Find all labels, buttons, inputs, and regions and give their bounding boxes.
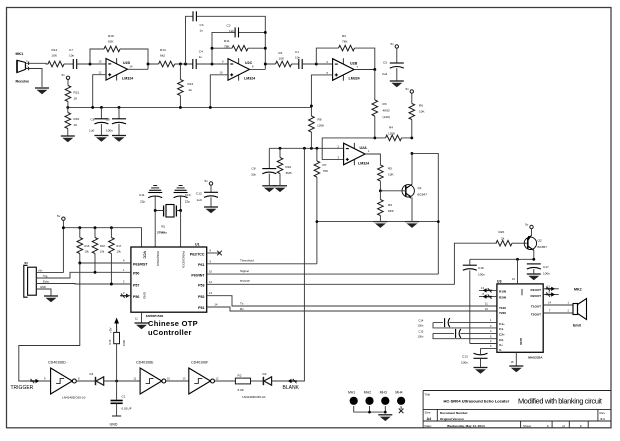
- node R2 left: [315, 63, 318, 66]
- wire U2B plus to rail end: [311, 75, 332, 106]
- bus entry TRIGGER: [30, 379, 39, 383]
- wire P62/TCC no-connect: [207, 252, 220, 254]
- ground (R10): [273, 186, 287, 192]
- svg-text:U3: U3: [497, 279, 502, 283]
- svg-text:100n: 100n: [106, 129, 113, 133]
- svg-text:VCC: VCC: [520, 289, 524, 296]
- svg-text:R20: R20: [499, 230, 505, 234]
- node U2C minus: [211, 63, 214, 66]
- svg-text:5v: 5v: [406, 87, 410, 91]
- svg-text:Tx: Tx: [240, 302, 244, 306]
- node C6 top: [100, 106, 103, 109]
- svg-text:1: 1: [547, 424, 549, 428]
- node rail R12: [179, 106, 182, 109]
- inverter CD40106F: [189, 368, 215, 394]
- node OSCI/crystal: [154, 209, 157, 212]
- capacitor C2 loop: [212, 32, 265, 64]
- svg-text:T2OUT: T2OUT: [531, 312, 541, 316]
- resistor R21 1K: [67, 80, 69, 86]
- svg-text:HC-SR04 Ultrasound Echo Locate: HC-SR04 Ultrasound Echo Locater: [444, 399, 510, 404]
- node R5/R9/base: [379, 189, 382, 192]
- capacitor C1: [299, 59, 302, 69]
- svg-text:Original Version: Original Version: [440, 417, 464, 421]
- node P57/R17: [110, 283, 113, 286]
- wire R1 to C1: [292, 63, 299, 65]
- op-amp U2D: [106, 58, 128, 80]
- wire D out to D1: [76, 380, 95, 382]
- wire U2D plus input to rail: [93, 75, 106, 108]
- node rail end U2B: [310, 104, 313, 107]
- wire R1IN stub: [479, 289, 497, 291]
- ground (mic): [35, 88, 49, 94]
- svg-text:CD40106D: CD40106D: [48, 361, 66, 365]
- svg-text:MAX232A: MAX232A: [528, 356, 543, 360]
- svg-text:R8: R8: [318, 118, 322, 122]
- svg-text:8K9: 8K9: [388, 209, 394, 213]
- wire R2IN stub: [479, 296, 497, 298]
- 5v supply (R21): [66, 76, 69, 79]
- svg-text:C2+: C2+: [499, 333, 505, 337]
- svg-text:+5V: +5V: [109, 326, 113, 333]
- svg-text:10K: 10K: [419, 110, 425, 114]
- svg-text:R15: R15: [108, 339, 112, 344]
- svg-text:10k: 10k: [100, 250, 105, 254]
- wire MH ground bus: [354, 406, 386, 412]
- svg-text:100n: 100n: [478, 273, 485, 277]
- ground (R9): [373, 222, 387, 228]
- wire U2B output: [354, 69, 375, 71]
- resistor R17 10k: [110, 228, 112, 238]
- svg-text:HV/OP: HV/OP: [240, 279, 250, 283]
- svg-text:C2: C2: [227, 24, 231, 28]
- node U2D out: [147, 63, 150, 66]
- node R7 top: [315, 147, 318, 150]
- ground (connector): [44, 296, 58, 302]
- svg-text:R3: R3: [383, 102, 387, 106]
- svg-text:D1: D1: [90, 372, 94, 376]
- svg-text:P63/RST: P63/RST: [133, 262, 148, 266]
- svg-text:R2IN: R2IN: [499, 296, 507, 300]
- node R11 left on vertical: [211, 47, 214, 50]
- wire feedback right leg: [120, 49, 148, 69]
- svg-text:R14: R14: [52, 48, 58, 52]
- svg-text:120K: 120K: [317, 124, 325, 128]
- MH4 no-connect: [400, 406, 402, 409]
- svg-text:R10: R10: [286, 165, 292, 169]
- node U2B out: [373, 68, 376, 71]
- node R10 top: [279, 147, 282, 150]
- svg-text:5v: 5v: [391, 42, 395, 46]
- svg-text:C3: C3: [200, 23, 204, 27]
- svg-text:6.6K: 6.6K: [238, 388, 245, 392]
- ground (R16): [61, 136, 75, 142]
- svg-text:2u2: 2u2: [382, 72, 387, 76]
- svg-text:1u0: 1u0: [197, 198, 202, 202]
- resistor R7 75K: [316, 148, 318, 263]
- wire P50 row: [36, 272, 131, 278]
- svg-text:10n: 10n: [69, 54, 74, 58]
- microcontroller U1 body: [131, 247, 207, 312]
- wire P56 stub with arrow: [121, 294, 130, 298]
- svg-text:C6: C6: [91, 118, 95, 122]
- svg-text:R18: R18: [100, 244, 105, 248]
- wire F out to R2b: [215, 380, 236, 382]
- svg-text:P61: P61: [198, 263, 204, 267]
- svg-text:4K92: 4K92: [383, 109, 391, 113]
- resistor R4: [375, 137, 412, 139]
- svg-text:100n: 100n: [543, 272, 550, 276]
- capacitor C7: [73, 59, 76, 69]
- svg-text:C10: C10: [185, 193, 191, 197]
- svg-text:1: 1: [580, 424, 582, 428]
- op-amp U2B: [333, 58, 355, 80]
- svg-text:C15: C15: [419, 329, 424, 333]
- svg-text:V+: V+: [499, 343, 503, 347]
- capacitor C16 100n: [469, 259, 471, 265]
- node rail R17: [110, 226, 113, 229]
- node blank line top: [303, 147, 306, 150]
- wire U2D output: [128, 64, 159, 69]
- ground above C10: [175, 186, 187, 191]
- svg-text:LM324: LM324: [358, 161, 369, 165]
- svg-text:C17: C17: [543, 265, 549, 269]
- wire Rx P51: [207, 307, 497, 311]
- svg-text:C4: C4: [199, 50, 203, 54]
- svg-text:U2C: U2C: [245, 61, 253, 65]
- svg-text:Wednesday, May 14, 2014: Wednesday, May 14, 2014: [447, 424, 485, 428]
- capacitor C9 100n: [118, 107, 120, 118]
- MAX232 U3 body: [497, 284, 543, 352]
- GND power symbol: [112, 415, 121, 417]
- node rail 5v: [62, 226, 65, 229]
- resistor R5 10K: [378, 165, 384, 181]
- svg-text:EM78P153S: EM78P153S: [146, 314, 163, 318]
- node R3/R4: [373, 136, 376, 139]
- op-amp U2A: [344, 143, 366, 165]
- svg-text:MH1: MH1: [348, 391, 355, 395]
- wire feedback left leg: [90, 49, 104, 64]
- svg-text:BC857: BC857: [538, 245, 548, 249]
- svg-text:P52: P52: [198, 295, 204, 299]
- svg-text:R21: R21: [74, 91, 80, 95]
- resistor R2 76K feedback: [316, 48, 375, 69]
- svg-text:Y1: Y1: [161, 225, 165, 229]
- resistor R19 10k: [79, 228, 81, 238]
- svg-text:Title: Title: [425, 393, 431, 397]
- ground (C5): [390, 81, 404, 87]
- node R12 top: [179, 63, 182, 66]
- svg-text:P53: P53: [198, 284, 204, 288]
- svg-text:VCC: VCC: [143, 251, 147, 259]
- svg-text:5v: 5v: [205, 179, 209, 183]
- svg-text:10K: 10K: [52, 54, 58, 58]
- svg-text:27MHz: 27MHz: [157, 231, 167, 235]
- node rail R18b: [94, 226, 97, 229]
- svg-text:22p: 22p: [185, 200, 190, 204]
- svg-text:3M3: 3M3: [286, 171, 292, 175]
- svg-text:Rx: Rx: [240, 307, 244, 311]
- U3 pin 16 VCC: [517, 259, 519, 284]
- transistor Q2 BC857: [524, 235, 536, 250]
- capacitor C11 22p: [148, 193, 162, 198]
- wire C7 to U2D: [77, 63, 106, 65]
- mounting hole MH3: [381, 397, 389, 405]
- node rail R19: [78, 226, 81, 229]
- wire R2b to D2: [251, 380, 264, 382]
- svg-text:C16: C16: [478, 266, 484, 270]
- svg-text:BLANK: BLANK: [283, 385, 300, 391]
- svg-text:R1IN: R1IN: [499, 289, 507, 293]
- connector IN: [24, 265, 37, 297]
- mounting hole MH4: [397, 397, 405, 405]
- resistor R8 120K: [310, 106, 312, 148]
- svg-text:C1: C1: [122, 395, 126, 399]
- inverter CD40106D: [51, 368, 77, 394]
- svg-text:1N4148DO35-10: 1N4148DO35-10: [62, 396, 86, 400]
- capacitor C8 33n: [268, 148, 270, 168]
- svg-text:120K: 120K: [388, 132, 396, 136]
- resistor R2b (box): [235, 378, 250, 384]
- svg-text:C1+: C1+: [499, 322, 505, 326]
- wire R1OUT stub: [543, 288, 559, 290]
- crystal Y1 27MHz: [164, 205, 177, 218]
- capacitor C12 1u0: [210, 185, 212, 192]
- svg-text:R1OUT: R1OUT: [531, 288, 542, 292]
- svg-text:Chinese OTP: Chinese OTP: [148, 319, 198, 328]
- svg-text:+5v: +5v: [38, 269, 43, 273]
- svg-text:P62/TCC: P62/TCC: [190, 252, 205, 256]
- svg-text:Document Number: Document Number: [440, 411, 468, 415]
- svg-text:10K: 10K: [279, 57, 285, 61]
- svg-text:A4: A4: [427, 417, 432, 421]
- +5V pullup rail: [63, 221, 141, 273]
- node P50/R18b: [94, 271, 97, 274]
- svg-text:LM324: LM324: [122, 77, 133, 81]
- svg-text:1k: 1k: [189, 88, 193, 92]
- svg-text:2k: 2k: [501, 237, 505, 241]
- capacitor C6 1u0: [100, 107, 102, 118]
- svg-text:MH3: MH3: [380, 391, 387, 395]
- node C2 right: [264, 31, 267, 34]
- connector pin stubs: [36, 273, 63, 296]
- node rail U2D plus: [91, 106, 94, 109]
- capacitor C15: [433, 333, 497, 338]
- svg-text:P65(OSCO): P65(OSCO): [182, 251, 186, 268]
- wire Threshold P61: [207, 263, 317, 265]
- svg-text:Size: Size: [425, 411, 431, 415]
- diode D2: [263, 377, 271, 385]
- ground (C17): [527, 274, 541, 280]
- svg-text:P50: P50: [133, 272, 139, 276]
- resistor R18b 10k: [94, 228, 96, 238]
- svg-text:10k: 10k: [117, 250, 122, 254]
- wire ground-bar link line: [317, 221, 438, 223]
- svg-text:CD40106F: CD40106F: [191, 361, 209, 365]
- ground (C12): [204, 207, 218, 213]
- svg-text:R6: R6: [419, 104, 423, 108]
- svg-text:Threshold: Threshold: [240, 259, 254, 263]
- svg-text:C12: C12: [196, 192, 202, 196]
- wire HV/OP P53: [207, 243, 497, 284]
- node OSCO/crystal: [179, 209, 182, 212]
- VCC line to MAX232: [470, 258, 534, 260]
- svg-text:100K: 100K: [122, 340, 126, 346]
- svg-text:62K: 62K: [108, 40, 114, 44]
- capacitor C4: [193, 59, 196, 69]
- resistor R15 (box): [114, 332, 120, 343]
- resistor R10 3M3: [279, 148, 281, 185]
- svg-text:10K: 10K: [388, 173, 394, 177]
- svg-text:22p: 22p: [140, 200, 145, 204]
- wire Q1 collector up / node: [411, 152, 414, 155]
- svg-text:1n: 1n: [199, 55, 203, 59]
- svg-text:100n: 100n: [418, 324, 424, 328]
- svg-text:TRIGGER: TRIGGER: [11, 385, 34, 391]
- svg-text:1u0: 1u0: [89, 129, 94, 133]
- node P63/trigger: [78, 262, 81, 265]
- svg-text:R5: R5: [388, 167, 392, 171]
- svg-text:U2D: U2D: [123, 61, 131, 65]
- svg-text:GND: GND: [110, 423, 118, 427]
- svg-text:5v: 5v: [525, 223, 529, 227]
- svg-text:V-: V-: [499, 348, 502, 352]
- svg-text:T2IN: T2IN: [499, 311, 506, 315]
- svg-text:R18: R18: [108, 34, 114, 38]
- ground (C9): [112, 136, 126, 142]
- svg-text:1N4148DO35-10: 1N4148DO35-10: [242, 395, 266, 399]
- wire OSCO column: [180, 211, 182, 248]
- svg-text:33n: 33n: [251, 173, 256, 177]
- capacitor C14: [433, 323, 497, 328]
- svg-text:CD40106E: CD40106E: [136, 361, 154, 365]
- mounting hole MH1: [350, 397, 358, 405]
- comparator input node wire: [269, 147, 343, 149]
- ground (U3): [509, 366, 523, 372]
- svg-text:R2: R2: [238, 374, 242, 378]
- wire U2A output to R5: [365, 154, 380, 165]
- capacitor C13 100n: [474, 353, 488, 358]
- capacitor C1b 0.01UF: [116, 381, 118, 400]
- svg-text:Modified with blanking circuit: Modified with blanking circuit: [518, 397, 602, 406]
- diode D1: [96, 377, 104, 385]
- svg-text:MH2: MH2: [364, 391, 371, 395]
- node R11 right: [264, 47, 267, 50]
- svg-text:76K: 76K: [342, 40, 348, 44]
- svg-text:Receive: Receive: [16, 80, 30, 84]
- node rail R21/R16: [66, 106, 69, 109]
- wire T2OUT to MK2: [543, 312, 573, 314]
- 5v supply (Q2): [530, 225, 533, 228]
- wire threshold feedback to U2A plus: [322, 138, 375, 160]
- svg-text:GND: GND: [40, 285, 46, 289]
- wire R2OUT stub: [543, 294, 559, 296]
- svg-text:(140): (140): [383, 115, 390, 119]
- svg-text:BC847: BC847: [418, 193, 428, 197]
- node C9 top: [118, 106, 121, 109]
- svg-text:P56: P56: [133, 295, 139, 299]
- ground above C11: [149, 186, 161, 191]
- resistor R3: [374, 70, 376, 138]
- wire E out to F in: [166, 380, 189, 382]
- svg-text:5v: 5v: [57, 214, 61, 218]
- node R4/R6: [410, 136, 413, 139]
- node link/right vertical: [437, 220, 440, 223]
- svg-text:6k2: 6k2: [160, 54, 165, 58]
- svg-text:C2-: C2-: [499, 338, 504, 342]
- wire C1 to U2B: [302, 63, 332, 65]
- node R15/C1/D1: [115, 380, 118, 383]
- node link/R7: [316, 220, 319, 223]
- svg-text:C9: C9: [106, 118, 110, 122]
- svg-text:uController: uController: [148, 328, 192, 337]
- node R8 bottom: [310, 147, 313, 150]
- svg-text:P51: P51: [198, 306, 204, 310]
- svg-text:Rev: Rev: [600, 411, 606, 415]
- 5v supply (R6): [410, 90, 413, 93]
- capacitor C10 22p: [174, 193, 188, 198]
- wire P57 row: [36, 283, 131, 286]
- wire Signal P60/INT: [207, 273, 439, 275]
- capacitor C17 100n: [527, 264, 541, 269]
- node U2C out: [264, 63, 267, 66]
- wire T1OUT to MK2: [543, 304, 573, 306]
- wire U2C output: [250, 64, 276, 69]
- svg-text:Signal: Signal: [240, 269, 249, 273]
- svg-text:75K: 75K: [323, 169, 329, 173]
- ground (C13): [474, 368, 488, 374]
- svg-text:0.01UF: 0.01UF: [122, 407, 132, 411]
- microphone MK1: [17, 60, 25, 72]
- svg-text:GND: GND: [519, 338, 523, 346]
- node VCC/pin16: [516, 258, 519, 261]
- inverter CD40106E: [140, 368, 166, 394]
- wire U1 GND pin: [141, 312, 143, 322]
- svg-text:C11: C11: [139, 193, 145, 197]
- wire trigger run: [19, 263, 80, 381]
- svg-text:R1: R1: [279, 51, 283, 55]
- svg-text:78K: 78K: [224, 45, 230, 49]
- wire MK1 pin1 to R14: [25, 62, 48, 65]
- 5v supply (C5): [395, 45, 398, 48]
- mounting hole MH2: [365, 397, 373, 405]
- svg-text:0.1: 0.1: [601, 417, 606, 421]
- resistor R16 1K: [67, 107, 69, 135]
- node rail U2C plus: [209, 106, 212, 109]
- speaker MK2: [573, 299, 587, 320]
- 5v supply (C12): [209, 182, 212, 185]
- bus entry BLANK: [288, 379, 297, 383]
- wire Tx P52: [207, 296, 497, 306]
- svg-text:Echo: Echo: [43, 280, 49, 284]
- wire P63/RST row: [80, 262, 131, 264]
- svg-text:Date:: Date:: [425, 424, 433, 428]
- svg-text:U2A: U2A: [360, 146, 368, 150]
- ground (C6): [94, 136, 108, 142]
- svg-text:LM324: LM324: [349, 77, 360, 81]
- node VCC/C17: [532, 258, 535, 261]
- svg-text:GND: GND: [143, 292, 147, 300]
- wire U2C plus to rail: [210, 75, 228, 108]
- wire R13 to C4: [175, 63, 193, 65]
- svg-text:C14: C14: [419, 319, 424, 323]
- transistor Q1 BC847: [402, 184, 414, 199]
- ground (C8): [262, 186, 276, 192]
- svg-text:R19: R19: [85, 244, 90, 248]
- capacitor C5 2u2: [396, 48, 398, 63]
- svg-text:C5: C5: [383, 61, 387, 65]
- title block lines: [423, 391, 611, 428]
- svg-text:P66(OSCI): P66(OSCI): [156, 251, 160, 266]
